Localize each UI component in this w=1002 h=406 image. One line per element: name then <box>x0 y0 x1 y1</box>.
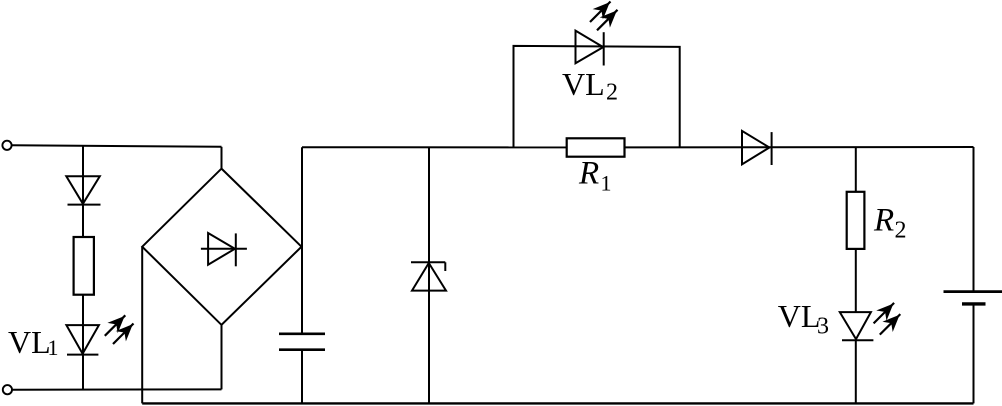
svg-text:VL: VL <box>8 324 51 360</box>
svg-text:VL: VL <box>778 298 821 334</box>
svg-text:R: R <box>873 202 894 238</box>
svg-text:VL: VL <box>562 66 605 102</box>
svg-text:2: 2 <box>895 218 907 244</box>
svg-text:R: R <box>578 156 599 192</box>
svg-text:1: 1 <box>48 335 59 360</box>
svg-text:1: 1 <box>601 171 612 196</box>
svg-text:2: 2 <box>606 80 618 106</box>
svg-text:3: 3 <box>817 314 829 340</box>
